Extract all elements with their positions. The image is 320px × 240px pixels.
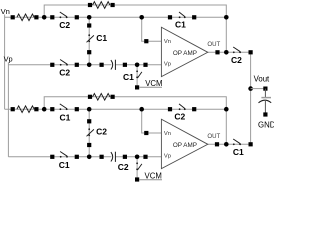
node junction D (R3 / feedback) bbox=[42, 107, 47, 112]
terminal square at U2 Vp input bbox=[143, 155, 147, 159]
svg-text:C2: C2 bbox=[118, 162, 129, 172]
svg-text:C2: C2 bbox=[174, 112, 185, 122]
node junction Vp row / VCM branch (stage 1) bbox=[135, 63, 140, 68]
wire feedback resistor loop of stage 2 bbox=[44, 97, 226, 145]
terminal square, cap C1 left bbox=[100, 63, 104, 67]
node junction C (to U1 Vn input) bbox=[139, 15, 144, 20]
svg-text:Vout: Vout bbox=[254, 75, 270, 84]
terminal square, switch C1 left (stage 2 cap row) bbox=[50, 155, 54, 159]
wire Vout to load capacitor bbox=[251, 88, 266, 90]
terminal square, feedback resistor right (stage 1) bbox=[111, 3, 115, 7]
terminal square at VCM rail (stage 1) bbox=[135, 85, 139, 89]
resistor R1 (stage 1 input) bbox=[17, 14, 34, 21]
switch C2 (stage 2 vertical branch) bbox=[87, 128, 94, 136]
switch C1 (stage 1 VCM branch) bbox=[136, 70, 142, 78]
terminal square, switch C1 right (cap row) bbox=[75, 155, 79, 159]
switch C2 (stage 1 main row) bbox=[60, 12, 68, 18]
node junction B (top of C1 branch) bbox=[87, 15, 92, 20]
svg-text:Vn: Vn bbox=[164, 39, 171, 45]
terminal square at load cap top bbox=[263, 87, 267, 91]
node junction F (to U2 Vn input) bbox=[139, 107, 144, 112]
svg-text:OUT: OUT bbox=[207, 133, 220, 140]
switch C1 (stage 1 vertical branch) bbox=[87, 34, 94, 42]
wire vertical branch with switch C1 (stage 1) bbox=[88, 17, 90, 65]
svg-text:VCM: VCM bbox=[145, 171, 162, 180]
svg-text:C1: C1 bbox=[233, 147, 244, 157]
op-amp U1 bbox=[161, 27, 207, 76]
resistor R4 (stage 2 feedback) bbox=[93, 94, 110, 101]
terminal square at U2 Vn input bbox=[144, 131, 148, 135]
resistor R3 (stage 2 input) bbox=[17, 106, 34, 113]
resistor R2 (stage 1 feedback) bbox=[93, 2, 110, 9]
node junction A (R1 / feedback) bbox=[42, 15, 47, 20]
terminal square, cap C1 right bbox=[123, 63, 127, 67]
wire U1 output row bbox=[208, 51, 251, 53]
terminal square, switch C1 right bbox=[192, 15, 196, 19]
terminal square, switch C2 left (stage 1 main row) bbox=[50, 15, 54, 19]
wire Vout vertical rail joining both stage outputs bbox=[250, 52, 252, 144]
terminal square on C2 branch (stage 2) bbox=[87, 119, 91, 123]
switch C1 (stage 2 main row) bbox=[60, 104, 68, 110]
wire Vn vertical rail (Vn down to lower-stage input row) bbox=[4, 15, 6, 110]
node junction C1-branch / Vp row (stage 1) bbox=[87, 63, 92, 68]
terminal square, switch C2 left (stage 2 main row) bbox=[168, 107, 172, 111]
svg-text:VCM: VCM bbox=[145, 79, 162, 88]
terminal square, cap C2 left bbox=[100, 155, 104, 159]
terminal square on C2 branch lower (stage 2) bbox=[87, 143, 91, 147]
svg-text:OP AMP: OP AMP bbox=[173, 142, 197, 149]
terminal square, Vn row input bbox=[11, 15, 15, 19]
terminal square on C1 branch lower (stage 1) bbox=[87, 50, 91, 54]
svg-text:C1: C1 bbox=[175, 19, 186, 29]
svg-text:Vp: Vp bbox=[4, 54, 13, 63]
svg-text:Vp: Vp bbox=[164, 61, 171, 67]
svg-text:C2: C2 bbox=[231, 55, 242, 65]
terminal square at U1 Vp input bbox=[143, 63, 147, 67]
terminal square, R3 right bbox=[34, 107, 38, 111]
wire top stage main input row bbox=[5, 16, 227, 18]
wire top stage Vp row (left of cap C1) bbox=[8, 64, 111, 66]
terminal square, feedback resistor right (stage 2) bbox=[111, 95, 115, 99]
wire Vp vertical rail (Vp down to lower-stage cap row) bbox=[7, 62, 9, 157]
wire bottom stage main input row bbox=[5, 108, 227, 110]
switch C2 (U1 output) bbox=[233, 47, 241, 53]
terminal square, switch C1 left (stage 1 main row) bbox=[168, 15, 172, 19]
terminal square at U2 output bbox=[215, 142, 219, 146]
node junction main-row / feedback drop (stage 2) bbox=[224, 107, 229, 112]
svg-text:C1: C1 bbox=[96, 33, 107, 43]
terminal square at U1 output bbox=[215, 50, 219, 54]
wire feedback resistor loop of stage 1 bbox=[44, 5, 226, 52]
switch C1 (stage 2 cap row) bbox=[60, 152, 68, 158]
terminal square at GND bbox=[263, 112, 267, 116]
svg-text:C2: C2 bbox=[96, 127, 107, 137]
terminal square, cap C2 right bbox=[123, 155, 127, 159]
terminal square, switch C2 right bbox=[75, 15, 79, 19]
terminal square on C1 branch (stage 1) bbox=[87, 23, 91, 27]
terminal square, feedback resistor left (stage 1) bbox=[88, 3, 92, 7]
op-amp U2 bbox=[161, 119, 207, 168]
terminal square, switch C2 right (Vp row) bbox=[75, 63, 79, 67]
terminal square at VCM rail (stage 2) bbox=[135, 177, 139, 181]
wire VCM switch branch (stage 2) bbox=[136, 157, 138, 180]
switch C2 (stage 1 Vp row) bbox=[60, 60, 68, 66]
switch C2 (stage 2 VCM branch) bbox=[136, 162, 142, 170]
wire bottom stage cap row (left of cap C2) bbox=[8, 156, 111, 158]
terminal square, switch C2 left (stage 1 Vp row) bbox=[50, 63, 54, 67]
node junction E (top of C2 branch) bbox=[87, 107, 92, 112]
wire load cap upper lead bbox=[264, 89, 266, 97]
wire top stage Vp row (right of cap C1) bbox=[115, 64, 161, 66]
wire VCM switch branch (stage 1) bbox=[136, 65, 138, 88]
terminal square, switch C1 right bbox=[75, 107, 79, 111]
svg-text:C2: C2 bbox=[59, 67, 70, 77]
wire VCM rail (stage 1) bbox=[139, 86, 162, 88]
terminal square, U1 output switch right / Vout rail corner bbox=[249, 50, 253, 54]
node Vout junction bbox=[248, 86, 253, 91]
node junction C2-branch / cap row (stage 2) bbox=[87, 155, 92, 160]
svg-text:C1: C1 bbox=[60, 113, 71, 123]
svg-text:Vp: Vp bbox=[164, 153, 171, 159]
svg-text:C1: C1 bbox=[59, 160, 70, 170]
svg-text:OUT: OUT bbox=[207, 41, 220, 48]
wire VCM rail (stage 2) bbox=[139, 179, 162, 181]
terminal square, bottom row input bbox=[11, 107, 15, 111]
wire U2 output row bbox=[208, 143, 251, 145]
terminal square, R1 right bbox=[34, 15, 38, 19]
node junction main-row / feedback drop (stage 1) bbox=[224, 15, 229, 20]
svg-text:GND: GND bbox=[258, 120, 274, 129]
capacitor C2 (stage 2 sampling cap) bbox=[111, 152, 116, 162]
svg-text:Vn: Vn bbox=[164, 131, 171, 137]
node junction cap row / VCM branch (stage 2) bbox=[135, 155, 140, 160]
terminal square, feedback resistor left (stage 2) bbox=[88, 95, 92, 99]
switch C1 (U2 output) bbox=[233, 139, 241, 145]
capacitor C1 (stage 1 sampling cap) bbox=[111, 60, 116, 70]
terminal square, switch C1 left (stage 2 main row) bbox=[50, 107, 54, 111]
wire to op-amp U1 Vn input bbox=[142, 17, 162, 41]
svg-text:OP AMP: OP AMP bbox=[173, 50, 197, 57]
wire vertical branch with switch C2 (stage 2) bbox=[88, 109, 90, 157]
terminal square, switch C2 right bbox=[192, 107, 196, 111]
svg-text:C1: C1 bbox=[123, 72, 134, 82]
svg-text:C2: C2 bbox=[59, 20, 70, 30]
node junction U1 out / feedback bbox=[224, 50, 229, 55]
wire to op-amp U2 Vn input bbox=[142, 109, 162, 133]
wire bottom stage cap row (right of cap C2) bbox=[115, 156, 161, 158]
capacitor CL (load, to GND) bbox=[259, 98, 272, 103]
svg-text:Vn: Vn bbox=[1, 7, 10, 16]
wire load cap lower lead bbox=[264, 100, 266, 115]
node junction U2 out / feedback bbox=[224, 142, 229, 147]
terminal square, U2 output switch right / Vout rail corner bbox=[249, 142, 253, 146]
terminal square at U1 Vn input bbox=[144, 39, 148, 43]
